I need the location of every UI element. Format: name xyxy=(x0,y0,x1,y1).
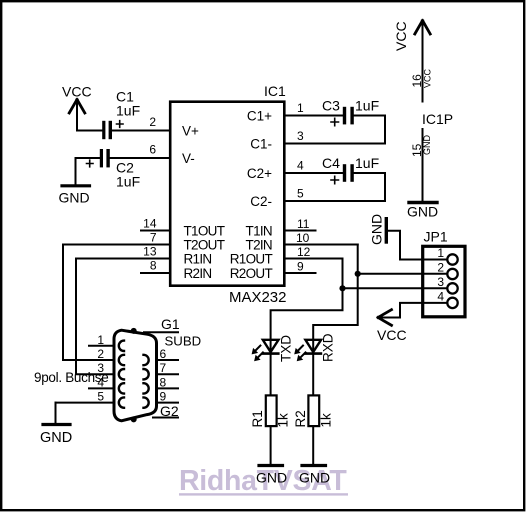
svg-text:GND: GND xyxy=(40,430,72,446)
pin 11 stub T1IN xyxy=(284,230,316,232)
wire RXD led to R2 xyxy=(312,354,314,396)
capacitor C2 xyxy=(87,149,141,190)
svg-text:5: 5 xyxy=(97,390,104,404)
wire GND to JP1 pin 1 xyxy=(388,231,447,260)
supply VCC (arrow left, below JP1) xyxy=(377,310,407,343)
svg-text:1k: 1k xyxy=(319,413,334,428)
LED TXD xyxy=(252,335,294,362)
wire JP1 pin 3 xyxy=(343,287,448,289)
svg-text:1uF: 1uF xyxy=(116,103,140,119)
svg-text:T1OUT: T1OUT xyxy=(184,224,225,239)
ground GND (below R2) xyxy=(299,466,330,486)
pin 14 stub T1OUT xyxy=(141,230,170,232)
svg-text:8: 8 xyxy=(160,375,167,389)
wire T2OUT to SUBD pin 2 xyxy=(63,245,114,361)
SUBD pin 5 wire xyxy=(56,402,115,404)
wire T2IN to RXD led xyxy=(313,245,358,340)
ground GND (top left) xyxy=(59,186,90,206)
svg-text:6: 6 xyxy=(160,347,167,361)
svg-text:V+: V+ xyxy=(182,124,199,139)
wire R1 to GND xyxy=(270,426,272,464)
svg-text:T1IN: T1IN xyxy=(246,224,272,239)
wire C4 to loop xyxy=(354,173,385,201)
svg-text:JP1: JP1 xyxy=(424,229,448,245)
svg-text:3: 3 xyxy=(437,275,444,289)
svg-text:R2IN: R2IN xyxy=(184,266,212,281)
svg-text:14: 14 xyxy=(143,217,157,231)
connector G1 SUBD body xyxy=(114,330,157,421)
wire VCC to C1 xyxy=(77,130,102,132)
SUBD pin 4 stub xyxy=(89,387,114,389)
wire JP1 pin 4 to VCC xyxy=(379,303,448,318)
svg-text:2: 2 xyxy=(149,115,156,129)
pin 12 wire R1OUT xyxy=(284,258,343,260)
svg-text:T2IN: T2IN xyxy=(246,238,272,253)
svg-text:GND: GND xyxy=(299,470,330,486)
capacitor C1 xyxy=(102,89,140,140)
svg-text:GND: GND xyxy=(422,135,432,156)
svg-text:VCC: VCC xyxy=(423,68,433,88)
node dot top of SUBD xyxy=(131,328,137,334)
svg-text:C1-: C1- xyxy=(250,137,272,152)
wire C3 to loop xyxy=(354,116,385,144)
svg-text:1uF: 1uF xyxy=(355,98,379,114)
svg-text:13: 13 xyxy=(143,245,157,259)
wire SUBD pin 5 to GND xyxy=(55,403,57,422)
SUBD socket arcs left xyxy=(119,341,124,408)
wire C2 to IC pin 6 xyxy=(110,157,170,159)
svg-text:12: 12 xyxy=(297,245,311,259)
svg-text:1uF: 1uF xyxy=(355,155,379,171)
JP1 pin numbers xyxy=(437,246,444,303)
SUBD G2 pin xyxy=(153,403,179,419)
SUBD right pin stubs 6-9 xyxy=(157,359,179,361)
svg-text:11: 11 xyxy=(297,217,310,231)
svg-text:GND: GND xyxy=(256,470,287,486)
svg-text:1uF: 1uF xyxy=(116,174,140,190)
svg-text:R1IN: R1IN xyxy=(184,252,212,267)
watermark RidhaTVSAT xyxy=(179,465,348,497)
svg-text:C3: C3 xyxy=(322,98,340,114)
svg-text:R1: R1 xyxy=(250,410,265,427)
wire R1OUT to TXD led xyxy=(271,259,343,340)
IC1 left pin names xyxy=(182,124,225,282)
svg-text:G1: G1 xyxy=(161,316,180,332)
pin 13 wire R1IN xyxy=(76,258,170,260)
svg-text:GND: GND xyxy=(368,214,384,245)
svg-text:C4: C4 xyxy=(322,155,340,171)
svg-text:3: 3 xyxy=(297,129,304,143)
svg-text:C2+: C2+ xyxy=(247,166,272,181)
wire C1 to IC pin 2 xyxy=(112,130,170,132)
capacitor C3 xyxy=(322,98,379,126)
pin 4 wire C2+ xyxy=(284,172,343,174)
supply VCC (top left) xyxy=(62,84,92,131)
ground GND (top right) xyxy=(407,203,438,220)
svg-text:9: 9 xyxy=(297,260,304,274)
LED RXD xyxy=(294,333,335,362)
connector JP1 xyxy=(423,229,465,317)
svg-text:GND: GND xyxy=(59,190,90,206)
svg-text:R2OUT: R2OUT xyxy=(230,266,273,281)
svg-text:VCC: VCC xyxy=(62,84,92,100)
svg-text:9: 9 xyxy=(160,390,167,404)
junction dot xyxy=(339,285,345,291)
svg-text:MAX232: MAX232 xyxy=(229,289,287,306)
svg-text:1: 1 xyxy=(437,246,444,260)
ground GND (bottom left) xyxy=(40,425,72,447)
svg-text:RXD: RXD xyxy=(321,333,336,362)
pin 3 wire C1- xyxy=(284,143,385,145)
svg-text:10: 10 xyxy=(296,231,310,245)
SUBD right pin numbers xyxy=(160,347,167,404)
pin 16 wire VCC of IC1P xyxy=(410,21,433,102)
svg-text:VCC: VCC xyxy=(377,327,407,343)
svg-text:TXD: TXD xyxy=(279,335,294,362)
svg-text:6: 6 xyxy=(149,143,156,157)
ground GND (rotated, near JP1) xyxy=(368,214,386,245)
svg-text:V-: V- xyxy=(182,151,195,166)
JP1 pin circles xyxy=(447,254,457,308)
pin 5 wire C2- xyxy=(284,200,385,202)
svg-text:4: 4 xyxy=(437,289,444,303)
resistor R1 xyxy=(250,395,291,427)
wire TXD led to R1 xyxy=(270,354,272,396)
svg-text:T2OUT: T2OUT xyxy=(184,238,225,253)
svg-text:5: 5 xyxy=(297,187,304,201)
svg-text:C1+: C1+ xyxy=(247,109,272,124)
wire R2 to GND xyxy=(312,426,314,464)
resistor R2 xyxy=(293,395,334,427)
wire R1IN to SUBD pin 3 xyxy=(76,259,114,375)
svg-text:1: 1 xyxy=(97,333,104,347)
SUBD left pin numbers xyxy=(97,333,104,404)
svg-text:VCC: VCC xyxy=(393,21,409,51)
svg-text:IC1P: IC1P xyxy=(422,111,453,127)
pin 1 wire C1+ xyxy=(284,115,343,117)
wire C2 to GND xyxy=(76,158,100,185)
pin 15 wire GND of IC1P xyxy=(410,129,432,202)
svg-text:R1OUT: R1OUT xyxy=(230,252,273,267)
wire JP1 pin 2 xyxy=(358,273,447,275)
pin 7 wire T2OUT xyxy=(63,244,170,246)
pin 9 stub R2OUT xyxy=(284,272,316,274)
capacitor C4 xyxy=(322,155,379,184)
pin 10 wire T2IN xyxy=(284,244,358,246)
svg-text:1k: 1k xyxy=(276,413,291,428)
svg-text:1: 1 xyxy=(297,101,304,115)
svg-text:4: 4 xyxy=(297,159,304,173)
SUBD G1 pin xyxy=(144,316,180,332)
pin 8 stub R2IN xyxy=(141,272,170,274)
svg-text:7: 7 xyxy=(150,231,157,245)
SUBD pin 1 stub xyxy=(89,345,114,347)
svg-text:8: 8 xyxy=(150,259,157,273)
svg-text:2: 2 xyxy=(97,347,104,361)
svg-text:C2-: C2- xyxy=(250,194,272,209)
svg-text:SUBD: SUBD xyxy=(165,334,202,349)
IC1 right pin names xyxy=(230,109,273,282)
junction dot xyxy=(355,271,361,277)
ground GND (below R1) xyxy=(256,466,287,486)
svg-text:GND: GND xyxy=(407,204,438,220)
supply VCC (top right) xyxy=(393,21,430,52)
op-amp IC1 MAX232 body xyxy=(170,83,286,306)
SUBD socket arcs right xyxy=(144,355,149,408)
svg-text:R2: R2 xyxy=(293,410,308,427)
svg-text:7: 7 xyxy=(160,361,167,375)
svg-text:2: 2 xyxy=(437,261,444,275)
svg-text:9pol. Buchse: 9pol. Buchse xyxy=(34,370,108,385)
svg-text:IC1: IC1 xyxy=(264,83,286,99)
node dot bottom of SUBD xyxy=(131,416,137,422)
